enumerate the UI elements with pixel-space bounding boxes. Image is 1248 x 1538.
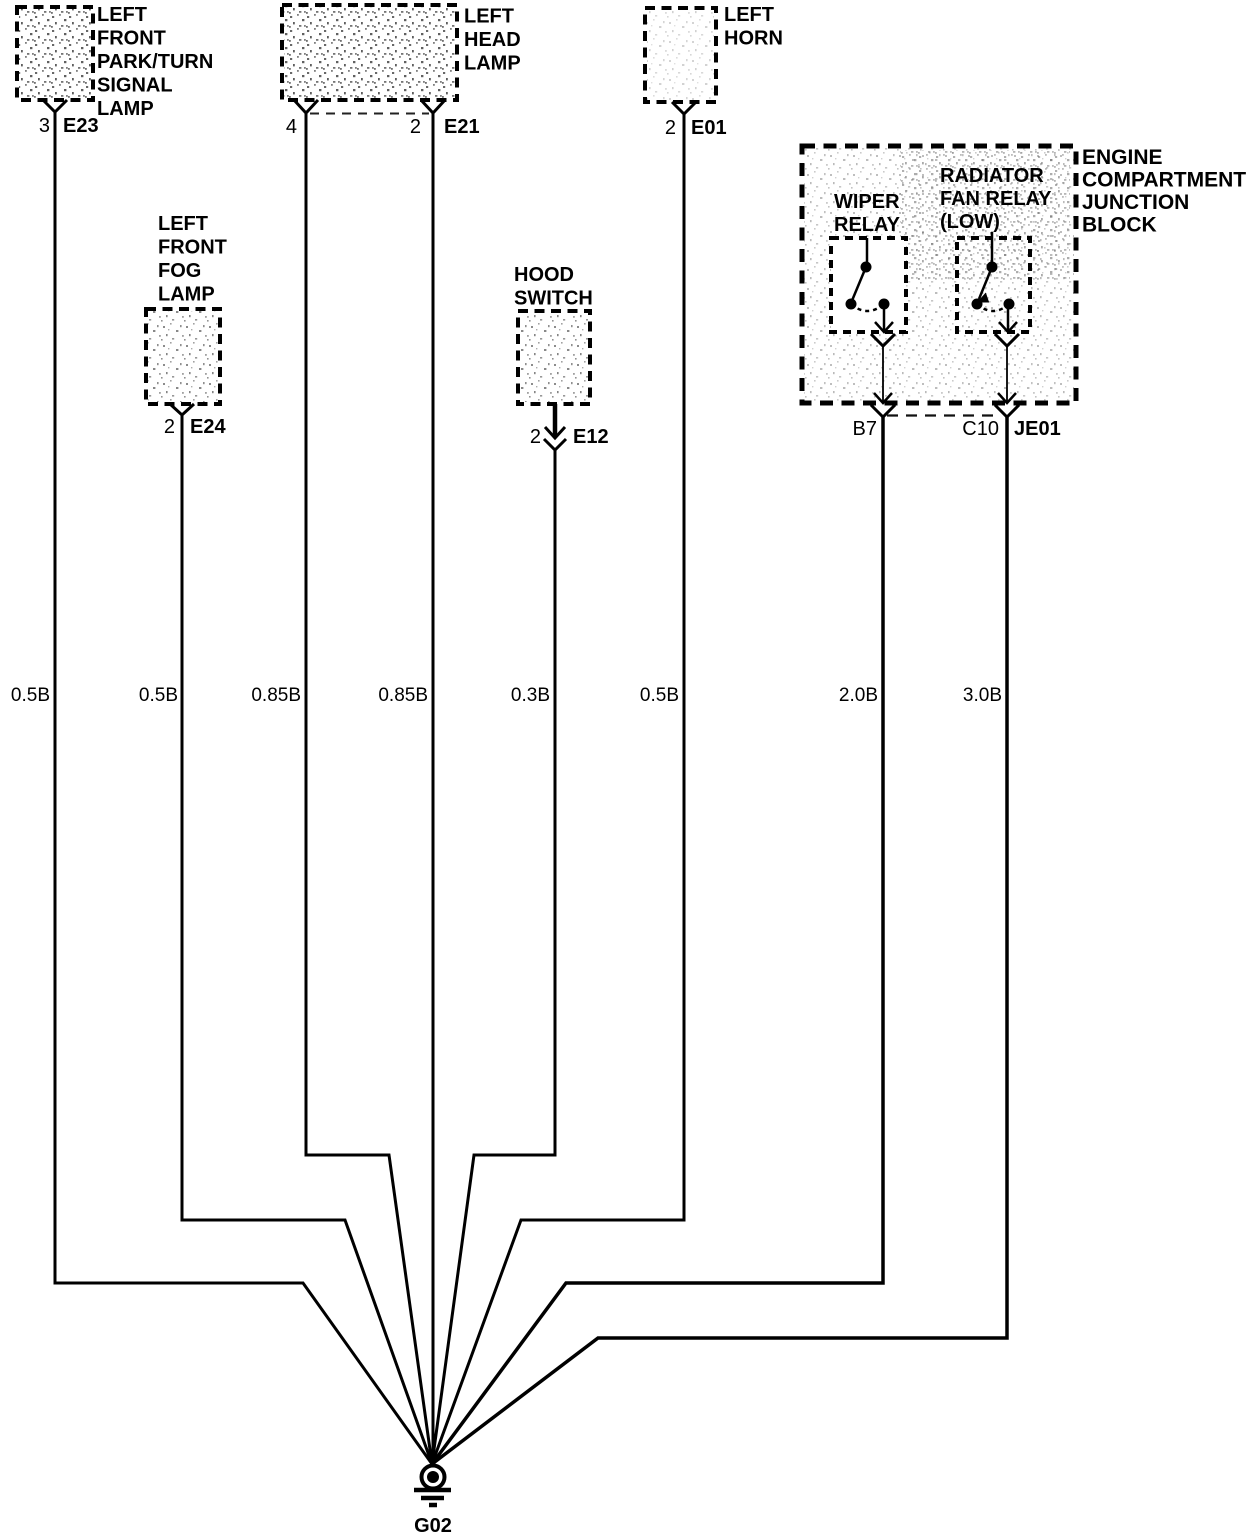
wire: C10 to G02 (3.0B) xyxy=(432,417,1007,1464)
wire: E24 pin 2 to G02 (0.5B) xyxy=(182,415,432,1464)
component: left head lamp box xyxy=(282,5,457,100)
label: RADIATOR FAN RELAY (LOW) xyxy=(940,165,1052,233)
connector E24 pin 2 (V symbol) xyxy=(164,404,227,438)
radiator fan relay contacts xyxy=(972,232,1018,332)
wire: E21 pin 2 to G02 (0.85B) xyxy=(432,113,435,1464)
svg-text:E01: E01 xyxy=(691,117,727,139)
svg-text:C10: C10 xyxy=(962,418,999,440)
wire: wiper relay to junction block terminal B7 xyxy=(882,346,884,392)
wiper relay output chevron xyxy=(871,334,895,346)
svg-text:3.0B: 3.0B xyxy=(963,685,1002,706)
svg-text:PARK/TURN: PARK/TURN xyxy=(97,51,213,73)
junction block terminal C10 (arrow into V) xyxy=(962,392,1060,440)
svg-text:2: 2 xyxy=(164,416,175,438)
svg-text:LAMP: LAMP xyxy=(97,98,154,120)
svg-text:2: 2 xyxy=(410,116,421,138)
svg-text:RELAY: RELAY xyxy=(834,214,901,236)
svg-text:LEFT: LEFT xyxy=(464,6,514,28)
connector E23 pin 3 (V symbol) xyxy=(39,100,99,137)
svg-text:LEFT: LEFT xyxy=(97,4,147,26)
relay: wiper relay (dashed box) xyxy=(831,238,906,332)
wiper relay contacts xyxy=(846,238,894,332)
connector E01 pin 2 (V symbol) xyxy=(665,102,727,139)
svg-text:FRONT: FRONT xyxy=(158,237,227,259)
connector JE01 strip (dashed) xyxy=(887,414,1001,416)
connector E21 strip (dashed) xyxy=(310,113,429,115)
svg-text:2: 2 xyxy=(665,117,676,139)
radiator fan relay output chevron xyxy=(995,334,1019,346)
svg-text:RADIATOR: RADIATOR xyxy=(940,165,1044,187)
label: WIPER RELAY xyxy=(834,191,901,236)
connector E21 pin 2 (V symbol) xyxy=(410,100,480,138)
svg-text:B7: B7 xyxy=(853,418,877,440)
svg-text:HOOD: HOOD xyxy=(514,264,574,286)
svg-text:COMPARTMENT: COMPARTMENT xyxy=(1082,169,1246,192)
svg-text:3: 3 xyxy=(39,115,50,137)
wire: E12 pin 2 to G02 (0.3B) xyxy=(432,450,555,1464)
svg-text:(LOW): (LOW) xyxy=(940,211,1000,233)
svg-text:2: 2 xyxy=(530,426,541,448)
svg-text:BLOCK: BLOCK xyxy=(1082,214,1157,237)
ground G02 symbol xyxy=(414,1466,451,1506)
component: hood switch box xyxy=(518,311,590,404)
wire: B7 to G02 (2.0B) xyxy=(432,417,883,1464)
svg-text:JE01: JE01 xyxy=(1014,418,1061,440)
svg-text:LEFT: LEFT xyxy=(724,4,774,26)
component: engine compartment junction block (dashed box) xyxy=(802,146,1076,403)
relay: radiator fan relay low (dashed box) xyxy=(957,238,1030,332)
svg-text:E23: E23 xyxy=(63,115,99,137)
svg-text:FOG: FOG xyxy=(158,260,201,282)
svg-text:HEAD: HEAD xyxy=(464,29,521,51)
svg-text:LAMP: LAMP xyxy=(464,53,521,75)
svg-text:HORN: HORN xyxy=(724,28,783,50)
svg-text:E24: E24 xyxy=(190,416,226,438)
wire: E23 pin 3 to G02 (0.5B) xyxy=(55,112,432,1464)
component: left horn box xyxy=(645,8,716,102)
svg-text:ENGINE: ENGINE xyxy=(1082,146,1163,169)
svg-text:2.0B: 2.0B xyxy=(839,685,878,706)
svg-text:WIPER: WIPER xyxy=(834,191,900,213)
svg-text:0.5B: 0.5B xyxy=(640,685,679,706)
label: LEFT HORN xyxy=(724,4,783,50)
svg-text:E12: E12 xyxy=(573,426,609,448)
label: ENGINE COMPARTMENT JUNCTION BLOCK xyxy=(1082,146,1246,237)
svg-text:E21: E21 xyxy=(444,116,480,138)
label: LEFT HEAD LAMP xyxy=(464,6,521,75)
svg-text:4: 4 xyxy=(286,116,297,138)
svg-text:FAN RELAY: FAN RELAY xyxy=(940,188,1052,210)
svg-text:0.85B: 0.85B xyxy=(378,685,428,706)
svg-text:FRONT: FRONT xyxy=(97,28,166,50)
svg-text:0.5B: 0.5B xyxy=(11,685,50,706)
label: HOOD SWITCH xyxy=(514,264,593,310)
label: LEFT FRONT PARK/TURN SIGNAL LAMP xyxy=(97,4,213,120)
svg-text:0.5B: 0.5B xyxy=(139,685,178,706)
wire: E01 pin 2 to G02 (0.5B) xyxy=(432,114,684,1464)
svg-text:SIGNAL: SIGNAL xyxy=(97,75,173,97)
wire: E21 pin 4 to G02 (0.85B) xyxy=(306,113,432,1464)
component: left front park/turn signal lamp box xyxy=(17,7,93,100)
component: left front fog lamp box xyxy=(146,309,220,404)
svg-text:JUNCTION: JUNCTION xyxy=(1082,191,1189,214)
svg-text:0.85B: 0.85B xyxy=(251,685,301,706)
svg-text:0.3B: 0.3B xyxy=(511,685,550,706)
junction block terminal B7 (arrow into V) xyxy=(853,392,895,440)
svg-text:G02: G02 xyxy=(414,1515,452,1537)
connector E12 pin 2 (arrow into V symbol) xyxy=(530,404,609,450)
label: LEFT FRONT FOG LAMP xyxy=(158,213,227,306)
svg-text:LAMP: LAMP xyxy=(158,284,215,306)
connector E21 pin 4 (V symbol) xyxy=(286,100,318,138)
svg-text:SWITCH: SWITCH xyxy=(514,288,593,310)
wire: radiator fan relay to junction block terminal C10 xyxy=(1006,346,1008,392)
svg-text:LEFT: LEFT xyxy=(158,213,208,235)
